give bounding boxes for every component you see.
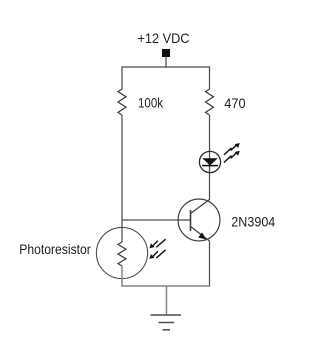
photoresistor light arrow lower — [149, 250, 165, 259]
photoresistor light arrow upper — [149, 239, 165, 248]
svg-text:100k: 100k — [138, 95, 164, 111]
LED light arrow upper — [224, 143, 240, 155]
wire: left branch upper — [121, 66, 123, 89]
photoresistor circle — [96, 227, 147, 278]
photoresistor zigzag element — [118, 242, 126, 266]
ground symbol — [151, 315, 182, 330]
LED D1 — [199, 151, 220, 172]
label 2N3904 — [231, 214, 275, 230]
power terminal +12V (black square) — [162, 49, 170, 57]
label +12 VDC — [138, 30, 190, 46]
wire: base wire — [122, 219, 191, 221]
wire: emitter to bottom bus — [209, 241, 211, 287]
wire: top bus — [122, 66, 211, 68]
resistor 100k — [118, 89, 126, 115]
label Photoresistor — [19, 241, 91, 257]
label 100k — [138, 95, 164, 111]
wire: 470 to LED to collector — [209, 115, 211, 200]
transistor Q1 2N3904 — [178, 199, 220, 241]
svg-text:2N3904: 2N3904 — [231, 214, 275, 230]
resistor 470 — [206, 89, 214, 115]
wire: terminal stem — [165, 57, 167, 68]
label 470 — [224, 95, 245, 111]
wire: 100k to photoresistor — [121, 115, 123, 242]
LED light arrow lower — [224, 151, 240, 163]
svg-text:+12 VDC: +12 VDC — [138, 30, 190, 46]
ground net wires (gray) — [122, 266, 210, 315]
svg-text:470: 470 — [224, 95, 245, 111]
wire: right branch upper — [209, 66, 211, 89]
svg-text:Photoresistor: Photoresistor — [19, 241, 91, 257]
